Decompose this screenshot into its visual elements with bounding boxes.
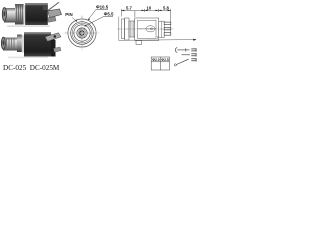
washer highlight of bottom photo (22, 35, 24, 53)
terminal lug top (164, 22, 171, 25)
terminal lug middle (164, 27, 171, 30)
spec table (151, 57, 169, 70)
leader line dia5.5 (85, 16, 113, 26)
dimension arrows top (121, 10, 170, 12)
top dimension line (121, 9, 170, 36)
side window ellipse (146, 26, 155, 32)
main body rect (135, 18, 159, 41)
schematic switch pivot circle (174, 64, 176, 66)
left extension line (118, 17, 120, 41)
washer highlight of top photo (24, 5, 26, 25)
shadow under bottom photo (8, 57, 48, 59)
side view drawing (118, 17, 175, 45)
center pin circle (80, 31, 84, 35)
schematic terminal 2 (191, 53, 196, 56)
schematic line pin1 (177, 49, 189, 51)
schematic tip contact arc (175, 48, 177, 53)
lower small tab of top photo (48, 17, 57, 23)
svg-text:DC-025 DC-025M: DC-025 DC-025M (3, 64, 60, 72)
shadow under top photo (7, 25, 50, 27)
panel nut rect (125, 18, 130, 40)
svg-text:5.8: 5.8 (163, 5, 169, 10)
flat lug with hole of bottom photo (45, 33, 61, 42)
extension from body corners (134, 11, 136, 17)
threaded section (129, 21, 135, 37)
horizontal centerline of side view (118, 28, 175, 30)
photo: DC jack product photo top-left (2, 2, 61, 27)
schematic terminal 1 (191, 48, 196, 51)
schematic switch blade (177, 59, 189, 64)
thin wire lug up-right of top photo (48, 2, 59, 10)
svg-text:7: 7 (157, 36, 159, 40)
hatch in inner ring (78, 28, 86, 38)
extension ticks (120, 9, 122, 17)
svg-text:5.7: 5.7 (126, 5, 132, 10)
svg-text:PIN: PIN (65, 12, 72, 17)
vertical centerline (81, 16, 83, 52)
center pin core dot (81, 32, 82, 33)
outer circle (68, 19, 96, 47)
schematic bracket pin1 (185, 48, 187, 51)
front view drawing (65, 16, 100, 52)
circle dia 10.5 (71, 22, 94, 45)
svg-text:Φ10.5: Φ10.5 (96, 5, 109, 10)
mounting leg below body (136, 41, 142, 45)
leader line dia10.5 (89, 9, 109, 19)
hex nut of bottom photo (17, 35, 22, 53)
bushing tip rect (121, 19, 124, 39)
barrel tip cap of top photo (2, 8, 6, 21)
rear block (159, 21, 165, 37)
photo: DC jack product photo bottom-left (1, 32, 61, 58)
svg-text:Φ5.5: Φ5.5 (104, 12, 114, 17)
barrel of top photo (4, 8, 16, 23)
terminal lug bottom (164, 33, 171, 36)
circle middle ring (72, 23, 92, 43)
knurled nut of top photo (15, 4, 24, 25)
leader from PIN (72, 18, 77, 22)
barrel tip cap of bottom photo (1, 37, 5, 49)
lower tab of bottom photo (54, 47, 62, 52)
svg-text:Φ2.0: Φ2.0 (152, 58, 160, 62)
svg-text:10: 10 (147, 5, 152, 10)
circle dia 5.5 (77, 28, 87, 38)
svg-text:Φ2.5: Φ2.5 (161, 58, 169, 62)
schematic terminal 3 (191, 58, 196, 61)
rear flat tab of top photo (48, 9, 62, 18)
bottom leader line with arrow (119, 39, 197, 42)
schematic line pin2 (182, 54, 191, 56)
circle body (74, 25, 90, 41)
black plastic body of top photo (25, 3, 48, 25)
horizontal centerline (65, 32, 100, 34)
threaded barrel of bottom photo (3, 38, 17, 51)
black plastic body of bottom photo (24, 32, 51, 56)
inner body rect (138, 20, 157, 38)
